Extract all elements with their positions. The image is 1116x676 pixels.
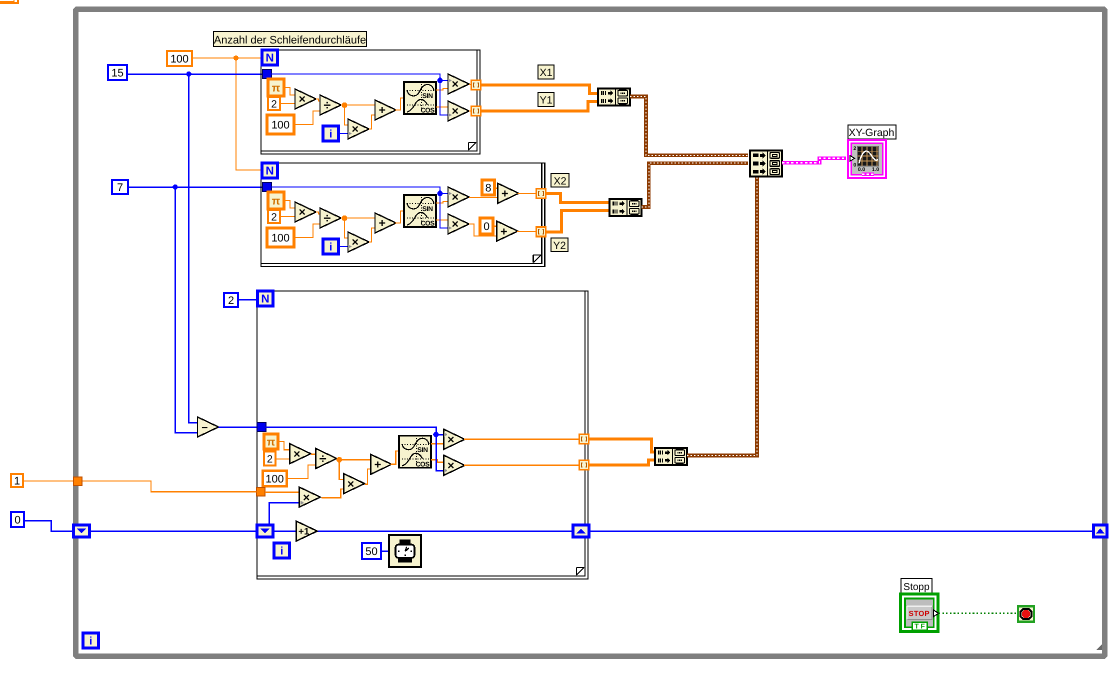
loop2 wire add to X tunnel (518, 193, 537, 195)
loop1 wire i to multiply (339, 133, 348, 135)
svg-text:Y2: Y2 (553, 240, 566, 252)
loop 1 N terminal (262, 50, 278, 65)
loop3 pi constant (264, 434, 278, 449)
loop 2 Y output tunnel (536, 227, 546, 237)
loop 3 input tunnel (257, 423, 266, 432)
numeric constant 100 (167, 51, 192, 66)
while loop right shift register (1094, 525, 1108, 537)
svg-text:N: N (266, 166, 274, 178)
svg-text:COS: COS (421, 221, 436, 228)
label Anzahl der Schleifendurchlaeufe (214, 32, 367, 47)
wire 100 to N terminals (192, 58, 263, 170)
xy graph terminal (848, 140, 886, 178)
loop 1 input tunnel (263, 70, 272, 79)
loop1 wire N blue branch (271, 74, 448, 115)
loop1 multiply i function (348, 119, 369, 139)
loop2 junction dot (342, 215, 348, 221)
numeric constant 0 (11, 512, 24, 527)
loop2 wire multiply sin to add (469, 197, 498, 199)
svg-text:×: × (452, 77, 459, 91)
loop3 wire 100 to divide (287, 465, 316, 479)
label X1 (538, 65, 554, 79)
svg-text:0: 0 (483, 221, 489, 233)
loop1 wire pi to multiply (284, 88, 295, 96)
loop2 sine cosine function (404, 195, 436, 228)
loop3 increment function (296, 521, 317, 541)
svg-text:STOP: STOP (909, 609, 930, 618)
build array node (750, 151, 782, 177)
for loop 1 frame (261, 50, 480, 154)
loop3 wire multiply to multiply phase (321, 489, 343, 498)
junction dot 100 wire (233, 55, 238, 60)
loop1 wire add to sincos (395, 98, 404, 110)
svg-text:1: 1 (14, 475, 20, 487)
loop3 wire 50 to wait (381, 550, 389, 552)
loop3 wire multiply to X tunnel (464, 438, 579, 440)
loop3 sine cosine function (399, 436, 431, 469)
svg-text:–: – (202, 422, 208, 434)
main shift register wire (51, 530, 1094, 532)
label Stopp (901, 579, 932, 594)
svg-text:+: + (379, 103, 386, 117)
loop3 wire sin output (431, 443, 444, 445)
loop3 wire multiply to Y tunnel (464, 464, 579, 466)
loop1 multiply function (295, 89, 316, 109)
loop2 wire 0 to add (493, 225, 497, 227)
loop3 junction dot (337, 457, 343, 463)
loop1 wire cos output (436, 106, 448, 108)
loop2 wire cos output (436, 219, 448, 221)
wire 7 branch to subtract (175, 187, 197, 433)
svg-text:N: N (266, 53, 274, 65)
svg-text:2: 2 (271, 98, 277, 110)
svg-text:N: N (261, 294, 269, 306)
loop2 multiply function (295, 202, 316, 222)
svg-text:π: π (267, 436, 276, 448)
loop3 numeric constant 2 (264, 452, 276, 466)
svg-text:2: 2 (853, 146, 856, 152)
cluster wire bundle1 to build array (630, 97, 748, 156)
svg-text:÷: ÷ (319, 451, 326, 466)
loop 1 X output tunnel (471, 80, 481, 90)
svg-text:π: π (272, 195, 281, 207)
svg-text:+: + (379, 216, 386, 230)
wire multiply to Y tunnel (469, 110, 472, 112)
svg-text:×: × (452, 217, 459, 231)
loop3 divide function (316, 449, 337, 469)
bundle 3 (655, 448, 687, 465)
loop1 blue junction dot (437, 78, 443, 84)
while loop iteration terminal i (83, 633, 99, 648)
loop3 wire multiply phase to add (365, 469, 371, 484)
svg-text:+1: +1 (298, 527, 310, 538)
loop1 sine cosine function (404, 82, 436, 115)
boolean wire stop to condition (939, 612, 1018, 614)
svg-text:2: 2 (267, 453, 273, 465)
loop2 wire add to Y tunnel (517, 230, 537, 232)
svg-text:50: 50 (365, 546, 377, 558)
svg-text:π: π (272, 82, 281, 94)
for loop 3 frame (257, 291, 588, 579)
svg-text:×: × (452, 104, 459, 118)
svg-text:100: 100 (271, 119, 289, 131)
loop3 wire junction to multiply phase (339, 460, 343, 480)
loop1 wire divide output (341, 104, 375, 106)
svg-text:100: 100 (170, 53, 188, 65)
svg-text:×: × (347, 477, 354, 491)
loop2 numeric constant 100 (267, 228, 294, 247)
svg-text:Y1: Y1 (540, 95, 553, 107)
loop3 multiply sin amplitude (444, 429, 465, 449)
stop button terminal (901, 594, 939, 632)
loop3 wire add to sincos (391, 451, 399, 464)
svg-text:×: × (299, 205, 306, 219)
wire multiply to X tunnel (469, 84, 472, 86)
array cluster wire to xy graph (782, 158, 846, 163)
loop2 add function (375, 213, 396, 233)
loop2 wire multiply to divide (316, 212, 320, 214)
loop2 wire N blue branch (271, 187, 448, 228)
loop1 wire sin output (436, 89, 448, 91)
loop1 wire 2 to multiply (280, 103, 295, 105)
loop3 wire cos output (431, 460, 444, 463)
array wire X2 (546, 194, 610, 203)
wire 7 to loop 2 (128, 186, 263, 188)
cluster wire bundle2 to build array (642, 163, 749, 207)
svg-text:×: × (447, 459, 454, 473)
loop2 numeric constant 8 (482, 180, 495, 195)
array wire X3 (589, 439, 656, 452)
array wire Y1 (481, 102, 599, 112)
loop3 multiply cos amplitude (444, 455, 465, 475)
svg-text:2: 2 (271, 211, 277, 223)
loop1 wire junction to multiply i (345, 105, 349, 125)
loop2 wire multiply i to add (369, 228, 375, 242)
svg-text:SIN: SIN (417, 447, 428, 454)
svg-text:×: × (352, 235, 359, 249)
svg-text:T F: T F (914, 624, 925, 631)
loop3 numeric constant 100 (263, 471, 287, 487)
subtract function (198, 417, 219, 437)
for loop 2 frame (261, 163, 545, 267)
loop 2 input tunnel (263, 183, 272, 192)
loop1 junction dot (342, 102, 348, 108)
svg-text:0: 0 (14, 514, 20, 526)
loop2 multiply i function (348, 232, 369, 252)
loop2 wire 100 to divide (294, 224, 320, 238)
svg-text:SIN: SIN (422, 206, 433, 213)
svg-text:×: × (447, 433, 454, 447)
svg-text:Anzahl der Schleifendurchläufe: Anzahl der Schleifendurchläufe (214, 34, 366, 46)
bundle 1 (598, 89, 630, 106)
loop1 wire 100 to divide (294, 111, 320, 125)
loop2 wire junction to multiply i (345, 218, 349, 238)
array wire Y2 (546, 211, 610, 232)
svg-text:2: 2 (228, 295, 234, 307)
loop3 wire junction to multiply sin (436, 434, 444, 436)
loop3 wait ms function (389, 535, 421, 567)
loop1 multiply sin amplitude (448, 74, 469, 94)
svg-text:×: × (303, 490, 310, 504)
svg-text:XY-Graph: XY-Graph (849, 127, 895, 139)
loop3 multiply shift function (299, 487, 320, 507)
loop3 wire pi to multiply (278, 442, 290, 450)
svg-text:×: × (452, 190, 459, 204)
loop 3 Y output tunnel (579, 460, 589, 470)
loop3 iteration terminal i (274, 543, 290, 558)
loop2 wire multiply cos to add (469, 224, 497, 236)
loop 3 N terminal (258, 291, 274, 306)
numeric constant 7 (112, 180, 128, 194)
svg-text:÷: ÷ (324, 211, 331, 226)
loop1 divide function (320, 95, 341, 115)
wire 15 branch to subtract (189, 74, 198, 423)
svg-text:1.0: 1.0 (872, 167, 879, 173)
loop3 add function (371, 454, 392, 474)
partial orange constant box at screen corner (0, 0, 18, 3)
loop2 pi constant (268, 192, 284, 209)
numeric constant 15 (108, 65, 127, 80)
loop3 numeric constant 50 (362, 543, 381, 559)
svg-text:×: × (352, 122, 359, 136)
wire 15 to loop 1 (127, 73, 263, 75)
svg-text:X2: X2 (554, 176, 567, 188)
svg-text:i: i (89, 636, 92, 648)
loop3 orange input tunnel (257, 488, 266, 497)
svg-text:×: × (293, 447, 300, 461)
svg-text:100: 100 (271, 232, 289, 244)
numeric constant 2 loop count (224, 293, 238, 307)
loop3 multiply phase function (344, 474, 365, 494)
loop1 numeric constant 2 (268, 97, 280, 110)
while loop left shift register (74, 525, 90, 537)
loop1 iteration terminal i (323, 126, 339, 141)
loop2 wire sin output (436, 202, 448, 204)
svg-text:i: i (280, 546, 283, 558)
svg-text:+: + (374, 458, 381, 472)
wire 2 to N terminal (238, 299, 257, 301)
loop 1 Y output tunnel (471, 106, 481, 116)
loop2 multiply sin amplitude (448, 187, 469, 207)
loop2 add Y offset (497, 221, 518, 241)
loop 3 right shift register (573, 525, 589, 537)
junction dot 15 wire (186, 71, 191, 76)
loop1 add function (375, 100, 396, 120)
wire subtract to loop 3 (219, 426, 258, 428)
loop2 multiply cos amplitude (448, 214, 469, 234)
loop3 multiply function (290, 444, 311, 464)
junction dot 7 wire (173, 184, 178, 189)
loop3 blue junction dot (433, 432, 439, 438)
svg-text:÷: ÷ (324, 98, 331, 113)
loop2 wire junction to multiply sin (440, 193, 448, 195)
svg-text:+: + (501, 187, 508, 201)
loop2 blue junction dot (437, 191, 443, 197)
cluster wire bundle3 to build array (687, 175, 757, 456)
svg-text:Stopp: Stopp (903, 582, 930, 593)
loop 2 X output tunnel (536, 189, 546, 199)
loop3 wire blue branch (266, 427, 444, 470)
loop2 wire divide output (341, 217, 375, 219)
loop 3 X output tunnel (579, 434, 589, 444)
svg-text:COS: COS (416, 461, 431, 468)
label Y2 (551, 238, 568, 252)
svg-text:0: 0 (853, 163, 856, 169)
svg-text:0.0: 0.0 (858, 167, 865, 173)
svg-text:×: × (299, 92, 306, 106)
loop3 wire tunnel to multiply (265, 491, 299, 493)
wire 1 to loop 3 (23, 481, 257, 492)
wire 0 to shift register (24, 521, 74, 532)
svg-text:SIN: SIN (422, 93, 433, 100)
loop2 add X offset (498, 183, 519, 203)
loop2 iteration terminal i (323, 239, 339, 254)
loop2 wire add to sincos (395, 211, 404, 223)
label Y1 (538, 93, 554, 107)
loop2 wire i to multiply (339, 246, 348, 248)
bundle 2 (610, 199, 642, 216)
svg-text:i: i (329, 129, 332, 141)
numeric constant 1 (11, 474, 23, 487)
loop1 multiply cos amplitude (448, 101, 469, 121)
while loop conditional terminal (1018, 606, 1034, 622)
svg-text:i: i (329, 242, 332, 254)
loop2 numeric constant 2 (268, 210, 280, 223)
loop 3 left shift register (257, 525, 273, 537)
loop3 wire multiply to divide (311, 453, 316, 455)
while loop orange tunnel (74, 477, 83, 486)
loop3 wire divide output (337, 459, 371, 461)
array wire Y3 (589, 460, 656, 465)
loop1 wire junction to multiply sin (440, 80, 448, 82)
label XY-Graph (848, 125, 896, 139)
loop1 pi constant (268, 79, 284, 96)
loop2 wire pi to multiply (284, 201, 295, 209)
svg-text:15: 15 (111, 67, 123, 79)
loop1 wire multiply to divide (316, 99, 320, 101)
loop3 wire 2 to multiply (276, 458, 290, 460)
svg-text:8: 8 (485, 182, 491, 194)
loop3 wire shift register to multiply (269, 503, 303, 525)
loop2 wire 2 to multiply (280, 216, 295, 218)
loop 2 N terminal (262, 163, 278, 178)
label X2 (551, 174, 569, 188)
loop1 numeric constant 100 (267, 115, 294, 134)
svg-text:X1: X1 (540, 67, 553, 79)
svg-text:7: 7 (117, 182, 123, 194)
loop2 numeric constant 0 (480, 218, 493, 234)
svg-text:+: + (500, 224, 507, 238)
loop1 wire multiply i to add (369, 115, 375, 129)
array wire X1 (481, 85, 599, 94)
svg-text:100: 100 (266, 473, 284, 485)
loop2 divide function (320, 208, 341, 228)
loop2 wire 8 to add (495, 187, 498, 189)
svg-text:COS: COS (421, 108, 436, 115)
